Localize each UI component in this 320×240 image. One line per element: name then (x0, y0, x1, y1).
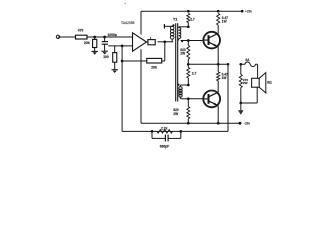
svg-text:1W: 1W (222, 20, 227, 24)
svg-text:-28v: -28v (244, 122, 251, 126)
svg-text:2.7: 2.7 (190, 18, 195, 22)
svg-text:20k: 20k (151, 66, 157, 70)
svg-text:2A: 2A (245, 58, 250, 62)
svg-text:1W: 1W (222, 76, 227, 80)
svg-text:2.7: 2.7 (192, 72, 197, 76)
svg-text:+28v: +28v (245, 10, 252, 14)
svg-text:20k: 20k (84, 41, 90, 45)
svg-text:TAA2058: TAA2058 (121, 21, 135, 25)
svg-text:2W: 2W (180, 52, 185, 56)
svg-text:2W: 2W (243, 81, 248, 85)
svg-text:2.2k: 2.2k (161, 126, 168, 130)
svg-text:470: 470 (78, 29, 84, 33)
svg-text:1000p: 1000p (108, 33, 117, 37)
svg-text:2W: 2W (173, 112, 178, 116)
svg-text:T1: T1 (173, 17, 177, 21)
svg-text:100: 100 (103, 55, 109, 59)
svg-text:680pF: 680pF (160, 145, 170, 149)
svg-text:8Ω: 8Ω (267, 80, 272, 84)
